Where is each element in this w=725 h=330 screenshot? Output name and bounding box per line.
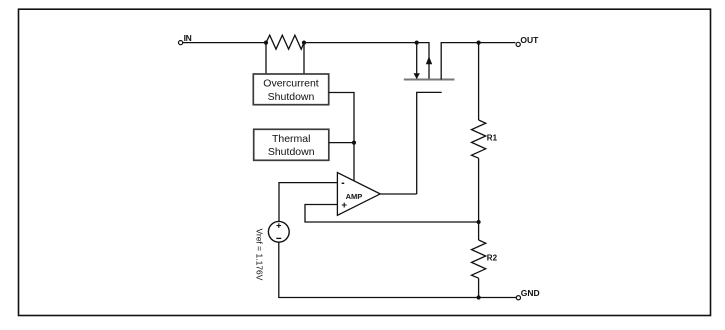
- svg-text:IN: IN: [184, 33, 192, 43]
- block Overcurrent Shutdown: [253, 74, 328, 105]
- svg-text:Shutdown: Shutdown: [268, 91, 315, 103]
- resistor R1: [472, 120, 498, 158]
- svg-text:R2: R2: [487, 254, 498, 263]
- svg-text:Thermal: Thermal: [272, 133, 311, 145]
- wire R1 to feedback node: [478, 158, 480, 222]
- wire Thermal output: [329, 142, 354, 144]
- wire resistor to MOSFET source: [304, 43, 429, 80]
- svg-text:OUT: OUT: [520, 35, 539, 45]
- resistor R2: [472, 240, 498, 278]
- node ground rail: [477, 295, 481, 299]
- wire resistor right to Overcurrent Shutdown: [303, 43, 305, 74]
- svg-text:R1: R1: [487, 134, 498, 143]
- node OUT branch: [477, 41, 481, 45]
- node shutdown junction: [352, 141, 356, 145]
- wire R2 to ground rail: [478, 278, 480, 297]
- transistor Q1 pass PMOS: [404, 43, 455, 194]
- svg-text:Shutdown: Shutdown: [268, 146, 315, 158]
- source Vref: [268, 221, 289, 242]
- wire resistor left to Overcurrent Shutdown: [265, 43, 267, 74]
- node feedback divider: [477, 220, 481, 224]
- wire MOSFET drain to OUT: [441, 43, 515, 80]
- node left of resistor: [264, 41, 268, 45]
- wire non-inverting input to feedback node: [305, 205, 479, 223]
- op-amp AMP: [337, 173, 380, 216]
- terminal IN: [179, 33, 192, 45]
- terminal OUT: [516, 35, 539, 47]
- svg-text:Overcurrent: Overcurrent: [263, 78, 319, 90]
- wire IN to series resistor: [183, 42, 266, 44]
- resistor series (input): [266, 35, 304, 49]
- node right of resistor: [302, 41, 306, 45]
- wire OUT node down to R1: [478, 43, 480, 120]
- node MOSFET source branch: [415, 41, 419, 45]
- wire Vref to ground rail: [279, 242, 516, 297]
- wire inverting input from Vref: [279, 183, 337, 222]
- block Thermal Shutdown: [254, 129, 329, 160]
- svg-text:AMP: AMP: [346, 192, 363, 201]
- wire Overcurrent output to shutdown bus: [329, 93, 354, 182]
- wire AMP output to gate: [380, 193, 417, 195]
- svg-text:Vref = 1.176V: Vref = 1.176V: [255, 229, 265, 281]
- wire feedback node to R2: [478, 222, 480, 240]
- svg-text:GND: GND: [521, 288, 540, 298]
- terminal GND: [516, 288, 539, 300]
